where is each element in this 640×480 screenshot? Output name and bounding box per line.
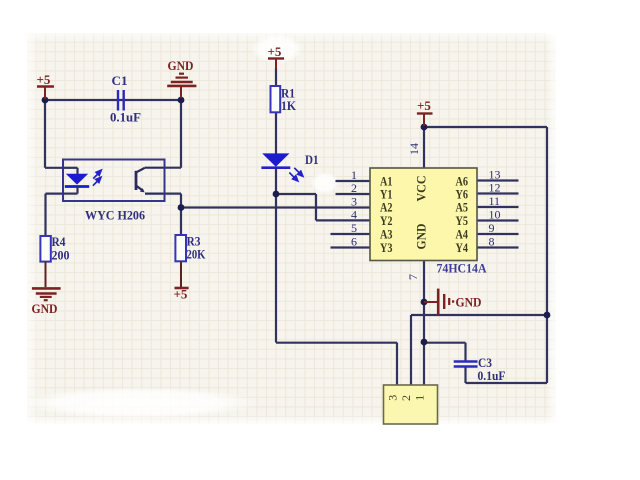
wire: chip pin 9 stub bbox=[477, 233, 519, 235]
wire: D1 node right bbox=[276, 193, 316, 195]
svg-text:C1: C1 bbox=[112, 73, 128, 88]
wire: gnd node down to connector pin 1 bbox=[423, 302, 425, 385]
junction dot at pin7 gnd node bbox=[421, 299, 428, 306]
power symbol +5 top-left bbox=[37, 87, 54, 100]
wire: chip pin 12 stub bbox=[477, 192, 519, 194]
wire: chip pin 11 stub bbox=[477, 206, 519, 208]
wire: optocoupler emitter out right bbox=[164, 193, 182, 195]
wire: R1 to D1 bbox=[275, 112, 277, 154]
svg-text:10: 10 bbox=[489, 208, 501, 222]
svg-text:WYC H206: WYC H206 bbox=[85, 208, 145, 223]
svg-text:GND: GND bbox=[414, 224, 429, 250]
resistor R3 bbox=[175, 235, 186, 261]
svg-text:8: 8 bbox=[489, 235, 495, 249]
svg-text:D1: D1 bbox=[305, 152, 319, 167]
junction dot at pin14 +5 node bbox=[421, 124, 428, 131]
wire: chip pin 1 stub bbox=[336, 180, 371, 182]
wire: optocoupler collector out right bbox=[164, 167, 182, 169]
svg-text:11: 11 bbox=[489, 194, 501, 208]
resistor R4 bbox=[40, 236, 50, 262]
wire: emitter node down to R3 bbox=[180, 208, 182, 236]
svg-text:3: 3 bbox=[351, 195, 357, 209]
svg-text:14: 14 bbox=[407, 143, 421, 155]
svg-text:GND: GND bbox=[168, 58, 194, 73]
wire: down into connector pin 3 bbox=[396, 343, 398, 386]
edge fades of scanned page bbox=[27, 33, 40, 425]
wire: chip pin 7 down bbox=[423, 261, 425, 303]
optocoupler phototransistor bbox=[136, 168, 164, 194]
junction dot at D1 node bbox=[273, 191, 280, 198]
optocoupler LED bbox=[63, 168, 89, 194]
svg-text:9: 9 bbox=[489, 221, 495, 235]
ground symbol GND top (inverted earth) bbox=[167, 74, 196, 98]
svg-text:6: 6 bbox=[351, 235, 357, 249]
junction dot at C1/GND right bbox=[178, 97, 185, 104]
svg-text:Y3: Y3 bbox=[380, 240, 393, 255]
wire: C3 top stub bbox=[464, 343, 466, 361]
wire: +5 mid down to R1 bbox=[275, 68, 277, 86]
wire: D1 cathode down long vertical bbox=[275, 168, 277, 343]
wire: chip pin 13 stub bbox=[477, 179, 519, 181]
svg-text:0.1uF: 0.1uF bbox=[478, 368, 506, 383]
wire: into optocoupler anode pin bbox=[45, 167, 63, 169]
svg-text:1: 1 bbox=[413, 395, 427, 401]
wire: to chip pin 4 bbox=[316, 219, 370, 221]
optocoupler U? WYC H206 box bbox=[63, 160, 165, 202]
svg-text:VCC: VCC bbox=[414, 176, 429, 202]
LED D1 bbox=[262, 153, 289, 166]
wire: C1 right to GND vertical bbox=[180, 100, 182, 168]
ground symbol GND bottom-left bbox=[32, 288, 61, 300]
IC U? 74HC14A body bbox=[370, 168, 477, 261]
svg-text:GND: GND bbox=[456, 295, 482, 310]
wire: right rail vertical bbox=[546, 127, 548, 383]
svg-text:1K: 1K bbox=[281, 98, 297, 113]
wire: bottom horizontal to connector pin 3 bbox=[276, 342, 397, 344]
ground symbol GND at pin 7 (sideways) bbox=[424, 289, 453, 316]
svg-text:3: 3 bbox=[386, 395, 400, 401]
svg-text:0.1uF: 0.1uF bbox=[110, 110, 141, 125]
wire: +5 node to right rail bbox=[424, 126, 547, 128]
svg-text:74HC14A: 74HC14A bbox=[437, 261, 488, 276]
wire: rail branch horizontal bbox=[411, 314, 547, 316]
svg-text:12: 12 bbox=[489, 181, 501, 195]
junction dot at +5/C1 left bbox=[42, 97, 49, 104]
optocoupler light arrows bbox=[93, 170, 101, 186]
power symbol +5 mid top bbox=[268, 59, 284, 70]
wire: chip pin 8 stub bbox=[477, 246, 519, 248]
wire: chip pin 10 stub bbox=[477, 219, 519, 221]
wire: emitter down to node bbox=[180, 194, 182, 208]
wire: chip pin 6 stub bbox=[331, 246, 371, 248]
power symbol +5 below R3 (inverted) bbox=[175, 287, 189, 290]
svg-text:4: 4 bbox=[351, 208, 357, 222]
junction dot at C3 node bbox=[421, 339, 428, 346]
wire: chip pin 5 stub bbox=[331, 233, 371, 235]
wire: R3 to +5 stem bbox=[180, 261, 182, 287]
capacitor C1 bbox=[118, 90, 124, 111]
connector J? 3-pin bbox=[384, 385, 438, 424]
wire: optocoupler cathode pin out left bbox=[46, 193, 64, 195]
svg-text:7: 7 bbox=[406, 274, 420, 280]
junction dot at emitter node bbox=[178, 204, 185, 211]
svg-text:200: 200 bbox=[52, 248, 70, 263]
wire: C3 bottom stub bbox=[464, 367, 466, 384]
resistor R1 bbox=[271, 86, 281, 112]
svg-text:2: 2 bbox=[351, 181, 357, 195]
wire: chip pin 2 stub bbox=[336, 193, 371, 195]
wire: down to R4 bbox=[44, 194, 46, 236]
svg-text:GND: GND bbox=[32, 301, 58, 316]
capacitor C3 bbox=[454, 362, 478, 367]
wire: pin 14 vertical to chip bbox=[423, 127, 425, 168]
svg-text:+5: +5 bbox=[268, 44, 282, 59]
svg-text:1: 1 bbox=[351, 168, 357, 182]
svg-text:Y4: Y4 bbox=[456, 240, 469, 255]
svg-text:+5: +5 bbox=[37, 72, 51, 87]
wire: C3 bottom to right rail bbox=[466, 382, 548, 384]
svg-text:5: 5 bbox=[351, 221, 357, 235]
wire: emitter node to chip pin 3 bbox=[181, 206, 370, 208]
svg-text:+5: +5 bbox=[417, 98, 431, 113]
svg-text:+5: +5 bbox=[174, 287, 188, 302]
wire: R4 to ground stem bbox=[45, 262, 47, 288]
svg-text:20K: 20K bbox=[187, 247, 207, 262]
wire: jog down bbox=[315, 194, 317, 220]
svg-text:2: 2 bbox=[399, 395, 413, 401]
svg-text:13: 13 bbox=[489, 168, 501, 182]
wire: left vertical down to optocoupler anode bbox=[44, 100, 46, 168]
wire: node to C3 top bbox=[424, 342, 466, 344]
D1 light arrows bbox=[289, 168, 303, 181]
wire: down into connector pin 2 bbox=[410, 315, 412, 385]
wire: +5 top-left to C1 net, horizontal bbox=[45, 99, 181, 101]
junction dot at right rail branch bbox=[544, 312, 551, 319]
power symbol +5 above pin 14 bbox=[417, 114, 433, 127]
